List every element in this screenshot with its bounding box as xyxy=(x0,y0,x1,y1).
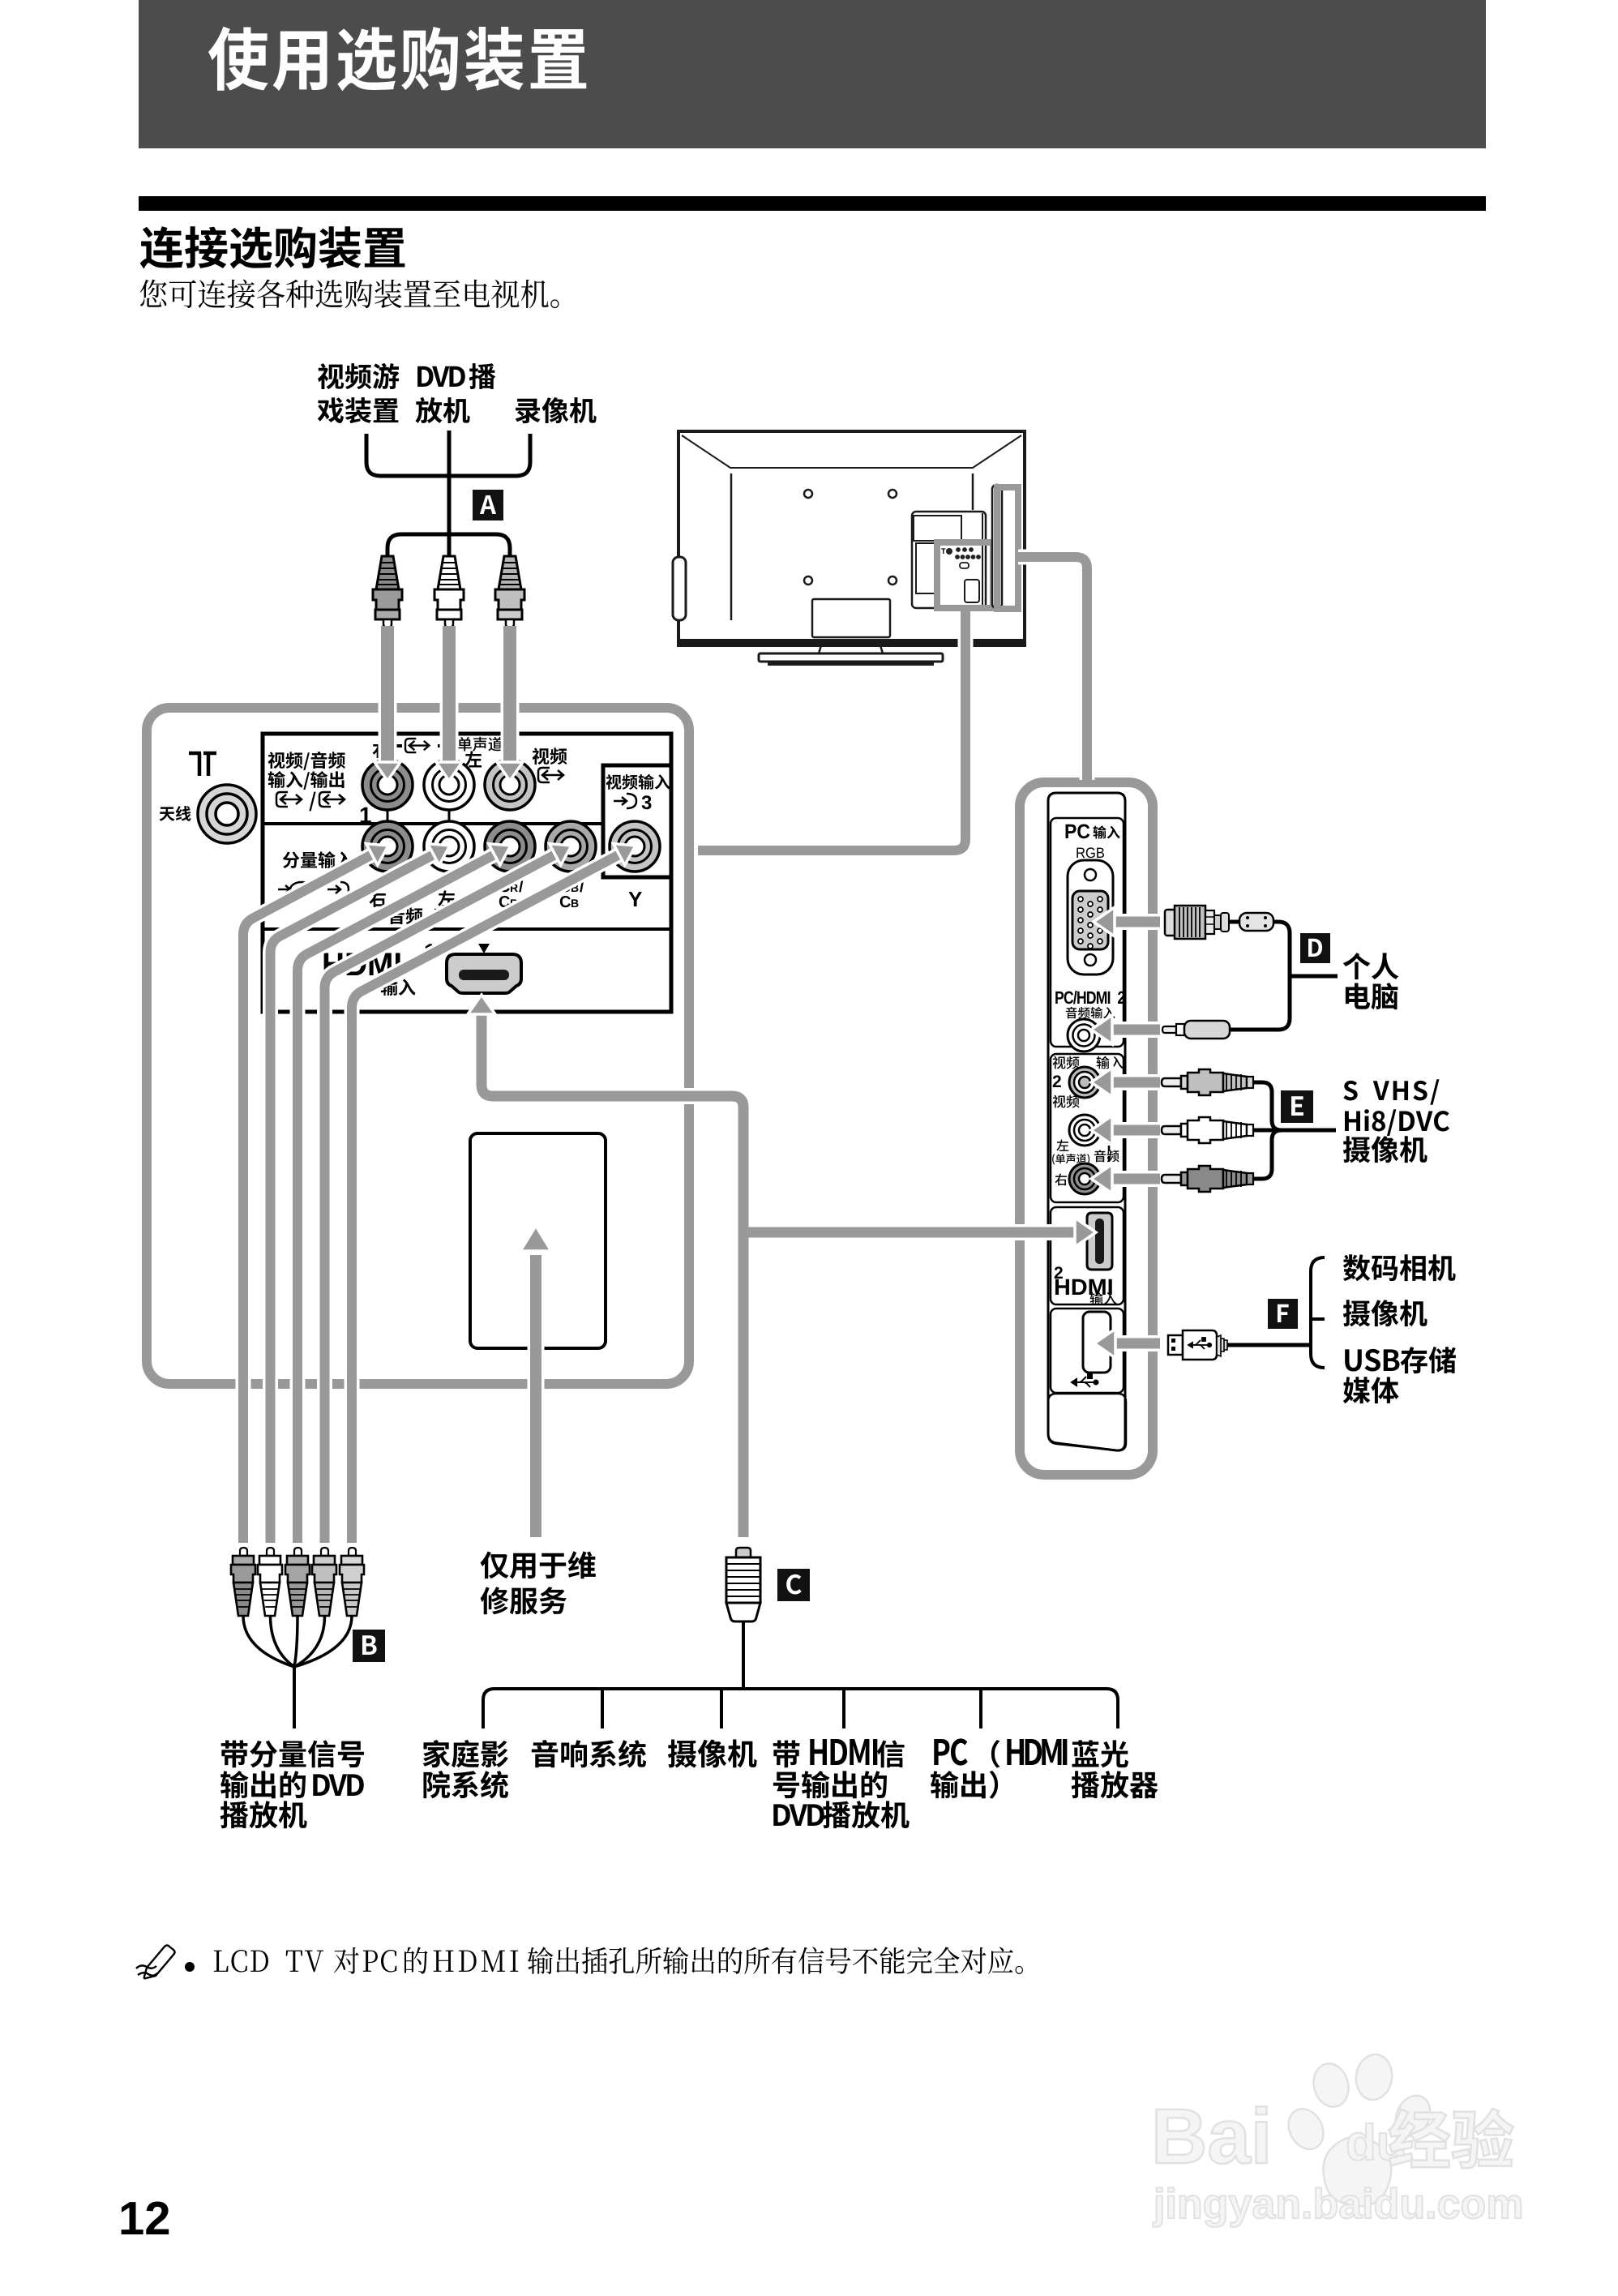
TV bottom bay cover xyxy=(812,599,890,637)
D audio arrow xyxy=(1111,1022,1160,1038)
baidu watermark xyxy=(1153,2052,1521,2227)
jack audio R xyxy=(485,760,535,810)
header bar 使用选购装置 xyxy=(139,0,1486,148)
RCA plug A1 (video) xyxy=(376,556,399,589)
蓝光播放器 xyxy=(1072,1740,1128,1767)
HDMI plug C xyxy=(736,1548,751,1557)
TV connector bay xyxy=(912,512,986,608)
bottom section xyxy=(1048,1394,1126,1450)
antenna jack xyxy=(198,785,256,843)
page number xyxy=(122,2202,169,2234)
component icons xyxy=(278,882,313,897)
service door xyxy=(470,1133,606,1348)
USB section xyxy=(1051,1309,1124,1393)
inner jack box xyxy=(263,734,671,1012)
antenna symbol xyxy=(189,753,216,776)
bottom devices bracket xyxy=(483,1689,1118,1728)
TV stand xyxy=(819,645,883,653)
cable A bracket xyxy=(387,534,510,558)
USB plug F xyxy=(1168,1335,1183,1355)
F USB arrow xyxy=(1112,1335,1160,1351)
jack comp audio L xyxy=(424,821,474,872)
RCA plug B3 xyxy=(294,1548,302,1556)
note text xyxy=(214,1950,268,1973)
TV rear outline xyxy=(678,431,1025,645)
note icon xyxy=(136,1946,175,1979)
jack labels xyxy=(369,890,385,907)
PC (HDMI输出) xyxy=(934,1738,967,1765)
HDMI1 arrow and cable C path xyxy=(482,1013,1079,1537)
VGA plug D xyxy=(1165,910,1176,936)
RCA plug E2 (audio L) xyxy=(1162,1126,1181,1134)
section rule xyxy=(139,196,1486,211)
component input label xyxy=(283,851,353,868)
RCA plug E1 (video) xyxy=(1162,1078,1181,1086)
F device labels xyxy=(1343,1254,1456,1281)
video 2 jack xyxy=(1069,1067,1100,1098)
video input 2 section xyxy=(1051,1054,1124,1202)
RCA plug A2 (audio L) xyxy=(438,556,460,589)
label 视频游戏装置 xyxy=(318,363,399,389)
highlight box on bay xyxy=(937,542,993,608)
audio in jack xyxy=(1068,1019,1100,1052)
label D xyxy=(1300,933,1330,963)
TV handle xyxy=(673,557,686,620)
视频输入3 box xyxy=(603,765,671,877)
audio R jack xyxy=(1069,1163,1100,1194)
right side panel xyxy=(1020,782,1153,1475)
RCA plug A3 (audio R) xyxy=(499,556,521,589)
E arrows xyxy=(1109,1074,1160,1090)
RCA plug B4 xyxy=(321,1548,328,1556)
mini jack plug xyxy=(1162,1026,1176,1033)
家庭影院系统 xyxy=(423,1740,508,1767)
D bracket tick xyxy=(1290,975,1338,979)
摄像机 xyxy=(668,1740,757,1768)
DVD with component label xyxy=(221,1740,364,1767)
VGA port xyxy=(1068,860,1113,975)
jack CB xyxy=(546,821,596,872)
天线 label xyxy=(160,806,191,821)
bay jacks detail xyxy=(941,548,945,554)
TV side strip xyxy=(992,485,1002,608)
service arrow xyxy=(528,1255,545,1537)
label F xyxy=(1268,1299,1298,1329)
D VGA arrow xyxy=(1114,914,1160,930)
F bracket xyxy=(1311,1257,1325,1368)
PC/HDMI2 audio label xyxy=(1055,991,1124,1004)
S VHS/Hi8/DVC 摄像机 label xyxy=(1343,1079,1439,1105)
jack comp audio R xyxy=(362,821,413,872)
highlight box on side xyxy=(997,487,1018,609)
leader from TV bay to Y row xyxy=(698,611,965,850)
device label bracket xyxy=(366,434,530,476)
VGA cable with ferrite xyxy=(1229,920,1239,924)
cable B tail xyxy=(293,1664,296,1728)
component cable B runs xyxy=(243,852,376,1543)
leader from TV side to right panel xyxy=(1018,557,1087,780)
wire from DVD label to cable A xyxy=(447,430,452,558)
audio L jack xyxy=(1069,1115,1100,1146)
label E xyxy=(1281,1090,1313,1123)
usb symbol xyxy=(1072,1374,1098,1387)
label 录像机 xyxy=(516,397,597,423)
label C xyxy=(777,1569,810,1601)
仅用于维修服务 label xyxy=(480,1551,595,1578)
RCA plug B5 xyxy=(349,1548,356,1556)
HDMI 1 input section xyxy=(324,953,400,975)
PC input section xyxy=(1051,818,1124,1047)
音响系统 xyxy=(532,1740,646,1767)
jack Y xyxy=(610,821,660,872)
jack video out xyxy=(362,760,413,810)
E cables join xyxy=(1253,1082,1282,1130)
TV inner bevel xyxy=(682,435,1021,468)
jack CR xyxy=(485,821,535,872)
heading 连接选购装置 xyxy=(140,226,405,268)
带HDMI信号输出的DVD播放机 xyxy=(773,1741,800,1768)
label DVD 播放机 xyxy=(417,366,465,387)
label A xyxy=(473,490,503,520)
body text xyxy=(140,280,559,309)
HDMI 1 connector xyxy=(447,954,521,993)
个人电脑 label xyxy=(1343,953,1398,979)
视频/音频 输入/输出 labels xyxy=(268,752,345,770)
jack audio L xyxy=(424,760,474,810)
cable A drops into AV1 jacks xyxy=(379,626,397,762)
left connection panel xyxy=(147,708,689,1384)
top jack row labels xyxy=(372,741,388,758)
HDMI 2 port xyxy=(1087,1213,1112,1270)
RCA plug E3 (audio R) xyxy=(1162,1175,1181,1183)
HDMI 2 section xyxy=(1051,1207,1124,1304)
label B xyxy=(353,1630,385,1662)
RCA plug B2 xyxy=(267,1548,274,1556)
RCA plug B1 xyxy=(240,1548,247,1556)
in/out icons xyxy=(276,792,302,807)
TV mount screw holes xyxy=(804,490,812,498)
